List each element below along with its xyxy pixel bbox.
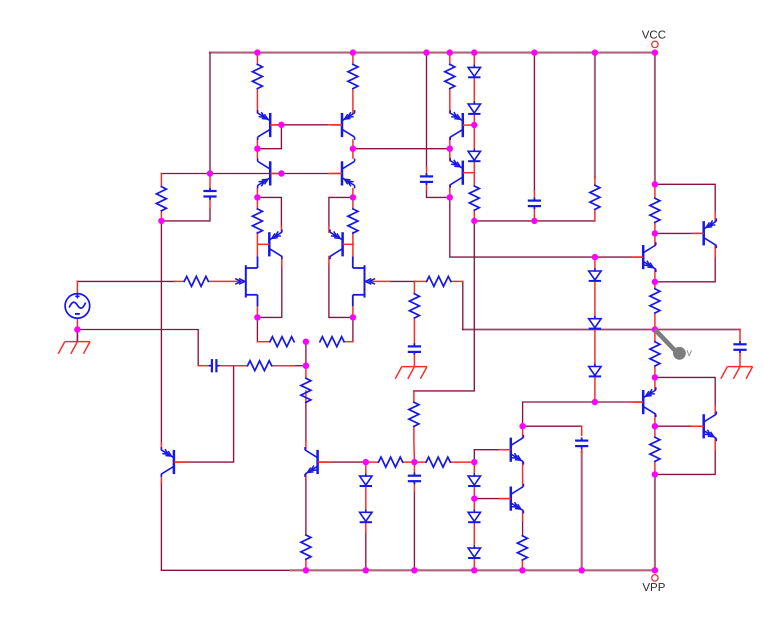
wire Q6 collector down [329,264,353,317]
diode D2 [468,101,480,114]
node railB3 [411,567,417,573]
diode D11 [468,545,480,558]
node VCC [652,49,658,55]
wire tail node down [305,342,307,366]
wire R8 bottom [654,222,656,233]
wire Q11 base wire [474,498,499,500]
transistor Q2 (pnp transistor) [330,110,354,140]
resistor R14 [301,378,311,402]
wire Q1 emitter lead [256,89,258,113]
wire R12 to C4 [413,318,415,346]
wire Q14E [654,377,656,389]
wire Q6 emitter link [329,197,353,226]
ground GND2 [395,355,427,379]
wire Q9 collector up [305,402,307,441]
resistor R8 [650,198,660,222]
wire R11 top [654,426,656,437]
voltage source V1 (sine) [65,294,90,319]
transistor Q6 (pnp transistor) [330,229,354,259]
wire Q17E [160,443,162,450]
transistor Q10 (npn transistor) [499,435,523,465]
resistor R7b [469,186,479,210]
transistor Q13 (pnp transistor) [692,218,716,248]
wire output node rail [463,329,740,331]
wire VCC top rail [210,52,655,54]
voltage probe [656,331,692,360]
wire D7 top [365,462,367,476]
diode D6 [589,364,601,377]
wire C3 drop [533,53,535,191]
wire C2 drop [426,53,428,167]
wire D5-D6 [594,329,596,366]
ground GND3 [721,355,753,379]
resistor R3 [445,64,455,88]
transistor Q16 (npn transistor) [632,242,656,272]
resistor R12 [409,294,419,318]
wire Q3 base stub [270,173,281,175]
capacitor C2 [420,173,433,185]
node tail [303,339,309,345]
wire D7-D8 [365,487,367,513]
wire output to VPP rail [654,474,656,570]
wire R2 top lead [352,53,354,65]
wire Q17 base wire [186,366,234,462]
wire R7 top [594,177,596,185]
wire Q2 collector lead [352,140,354,149]
wire C3 bottom [533,206,535,221]
wire mirror link [353,148,450,150]
wire RH5 right [272,365,294,367]
wire J1 source down [256,317,258,341]
wire R14 top [305,366,307,379]
wire J2 source lead [352,307,354,318]
wire 2nd stage out [450,197,632,257]
wire R10 bottom [654,366,656,377]
wire Q8 collector [449,185,451,197]
wire D4 top [594,257,596,271]
node railB6 [579,567,585,573]
wire Q7 emitter [449,89,451,113]
wire R13 bottom [413,426,416,462]
wire C2 corner [427,190,450,197]
wire Q17 collector to rail [160,483,162,570]
wire Q5 emitter link [257,197,281,226]
wire Q12E [714,212,716,221]
wire Q9 emitter [305,474,307,478]
wire R13 corner [462,281,464,329]
wire Q12 loop top [655,184,715,212]
wire Q12 loop bottom [655,257,715,282]
wire R10 top [654,330,656,342]
wire Q10C [522,426,524,437]
wire R4 bottom [160,211,162,221]
svg-text:VCC: VCC [642,30,666,42]
diode D9 [468,473,480,486]
wire C8 left lead [198,365,209,367]
diode D4 [589,268,601,281]
wire C6 top lead [581,426,583,435]
wire R9 top [654,282,656,289]
jfet J2 [353,257,375,307]
wire Q16 base stub wire [632,256,644,258]
svg-text:VPP: VPP [642,582,665,594]
wire source stub bottom [76,318,78,329]
wire Q8 emitter [449,149,451,161]
wire C5 top [739,330,741,345]
node Q1C [254,146,260,152]
capacitor C7 [408,473,421,485]
resistor R1 [252,64,262,88]
wire source bottom to gnd [76,330,78,341]
node D2D3 [471,122,477,128]
node J1S [254,314,260,320]
transistor Q11 (npn transistor) [499,484,523,514]
resistor RH2 [427,276,451,286]
wire D9-dot [473,487,475,499]
resistor R7 [590,185,600,209]
wire input node row [77,330,198,366]
wire D4-D5 [594,282,596,319]
node outB [652,230,658,236]
wire tail R leads2 [344,341,353,343]
wire C7 bottom [413,481,415,492]
wire J1 source lead [256,307,258,318]
wire Q13C [654,233,656,244]
wire Q6 emitter lead [328,226,330,232]
capacitor C6 [575,437,588,449]
wire Q15C [714,406,716,414]
ground GND1 [58,330,90,354]
wire Q13 base wire [655,232,692,234]
resistor R10 [650,342,660,366]
svg-text:v: v [687,347,693,359]
wire Q13E [654,269,656,282]
wire C1 bottom [209,196,211,209]
wire row462 b [403,461,426,463]
wire Q10 base stub [500,449,511,451]
node Q1Q2 base [278,122,284,128]
wire J2 gate lead [365,280,391,282]
node R7-D4 [592,254,598,260]
wire Q3 emitter lead [256,189,258,198]
node out [652,326,658,332]
wire D2-dot [473,115,475,126]
wire VCC drop to R18 [594,53,596,178]
wire Q16 bias wire stub [632,401,644,403]
resistor R5 [252,209,262,233]
wire C2 top [426,167,428,176]
resistor RH3 [270,337,294,347]
wire RH2 left [414,280,426,282]
wire Q17C [160,474,162,483]
wire R5 to J1 drain [256,232,258,256]
resistor RH6 [379,457,403,467]
node rail-R3 [447,49,453,55]
wire bias wire [523,402,632,426]
wire RH2 right [451,280,463,282]
wire base row Q1-Q2 [281,124,329,126]
node outD [652,374,658,380]
wire C6 top wire [523,425,582,427]
wire D1-D2 [473,78,475,104]
wire C1 top [209,174,211,191]
wire R1 top lead [256,53,258,65]
capacitor C1 [203,188,216,200]
wire R7 bottom [594,209,596,221]
wire Q4 base stub [329,173,342,175]
wire VPP bottom rail left [161,569,290,571]
wire base row Q3-Q4 [281,173,329,175]
diode D3 [468,149,480,162]
wire R6 leads [352,197,354,209]
wire D1 top [473,53,475,68]
transistor Q5 (pnp transistor) [258,229,282,259]
wire Q11 emitter down [522,521,524,535]
transistor Q16b (pnp transistor) [632,387,656,417]
wire C7 to rail [413,492,415,570]
node outE [652,423,658,429]
wire Q4 collector lead [352,149,354,158]
wire R7b bottom [473,210,475,221]
wire source stub top [76,281,78,293]
wire J1 gate lead [208,280,245,282]
node rowA [411,459,417,465]
wire R5 leads [256,197,258,209]
wire source top lead [77,280,175,282]
wire Q2 base stub [329,124,342,126]
wire dot-D3 [473,125,475,151]
wire Q17 base stub [174,461,186,463]
resistor RH1 [184,276,208,286]
transistor Q4 (pnp transistor) [330,159,354,189]
node Q3E [254,194,260,200]
node rail-R7 [592,49,598,55]
wire R7 wire [474,220,595,222]
node R4C1 [158,218,164,224]
node R7b-wire [471,218,477,224]
node input [207,170,213,176]
wire Q9 base wire [330,461,366,463]
wire R11 bottom [654,461,656,474]
resistor RH7 [426,457,450,467]
transistor Q7 (pnp transistor) [450,110,474,140]
wire Q15E [714,438,716,450]
resistor R16 [517,536,527,560]
node VPP [652,567,658,573]
wire Q11E [522,511,524,521]
node railB1 [303,567,309,573]
node outC [652,279,658,285]
node railB4 [471,567,477,573]
transistor Q3 (pnp transistor) [258,159,282,189]
wire C6 bottom lead [581,446,583,452]
node rail-C3 [531,49,537,55]
wire Q5 collector lead [281,257,283,267]
node src [74,326,80,332]
node rowC [471,459,477,465]
node fb [303,363,309,369]
wire tail R leads [257,341,270,343]
wire Q1 base-collector tie [257,125,281,149]
jfet J1 [235,257,257,307]
node railB5 [519,567,525,573]
resistor R2 [348,64,358,88]
resistor R9 [650,289,660,313]
resistor R4 [156,187,166,211]
wire Q14 base wire stub [692,425,704,427]
wire Q10 base wire [474,450,499,462]
capacitor C5 [733,341,746,353]
diode D5 [589,316,601,329]
node rail-D1 [471,49,477,55]
power pin VCC [642,30,666,48]
node rail-C2 [423,49,429,55]
wire D8 bottom [365,523,367,533]
wire C8-RH5 [219,365,247,367]
wire Q4 emitter lead [352,189,354,198]
wire gate wire right [390,280,414,282]
wire Q7 collector [449,137,451,148]
resistor RH4 [320,337,344,347]
wire Q5 emitter lead [280,226,282,232]
node bias [519,423,525,429]
wire R14 bottom [305,391,307,403]
node D6-wire [592,399,598,405]
diode D7 [360,473,372,486]
wire D3-R7b [473,162,475,186]
transistor Q8 (pnp transistor) [450,158,474,188]
node Q3Q4 base [278,170,284,176]
wire D11-rail [473,559,475,571]
capacitor C4 [408,343,421,355]
wire C5 bottom [739,350,741,355]
wire D6-dot [594,377,596,402]
wire C6 to VPP rail [581,452,583,570]
wire Q10E-Q11C [522,462,524,486]
node rail-R1 [254,49,260,55]
wire R12 top [413,281,415,293]
wire Q13 base [692,232,704,234]
wire R4 top [160,174,162,187]
resistor R15 [301,535,311,559]
wire R9 bottom [654,313,656,330]
diode D10 [468,510,480,523]
wire Q15 loop bottom [655,450,715,474]
transistor Q14 (npn transistor) [692,411,716,441]
wire feedback lead [294,365,306,367]
wire D10-D11 [473,523,475,548]
capacitor C3 [528,197,541,209]
resistor R6 [348,209,358,233]
node railB2 [363,567,369,573]
node Q7C [447,146,453,152]
wire R3 top lead [449,53,451,65]
power pin VPP [642,575,665,594]
node D9D10 [471,495,477,501]
wire Q9 emitter down [305,478,307,535]
wire Q12C [714,246,716,258]
wire D8 to rail [365,533,367,570]
wire R19 vert [414,221,474,391]
wire C1 bottom to R4 [161,209,210,221]
wire VPP bottom rail [290,569,655,571]
wire R13 top [413,391,415,402]
wire row462 c [450,461,474,463]
wire R16 bottom [521,560,523,570]
transistor Q1 (pnp transistor) [258,110,282,140]
wire row462 a [366,461,379,463]
wire C2 bottom [426,182,428,190]
wire Q2 emitter lead [352,89,354,113]
wire C7 top [413,462,415,476]
capacitor C8 [209,359,220,372]
wire R4 node to Q17 emitter [160,221,162,443]
wire Q9 base stub [318,461,330,463]
resistor R13 [409,402,419,426]
diode D1 [468,65,480,78]
wire Q3 collector lead [256,149,258,158]
wire Q15 loop top [655,377,715,406]
wire J2 source down [352,317,354,341]
node Q4E [350,194,356,200]
wire Q11 base stub [500,498,511,500]
node J2S [350,314,356,320]
wire rail corner down [209,53,211,174]
node outF [652,471,658,477]
wire Q1 collector lead [256,140,258,149]
wire input row [161,173,270,175]
wire Q14 base wire [655,425,692,427]
wire RH1 left lead [175,280,184,282]
node C3-wire [531,218,537,224]
wire Q14C [654,414,656,426]
diode D8 [360,510,372,523]
node Q8C [447,194,453,200]
node rail-R2 [350,49,356,55]
resistor RH5 [248,361,272,371]
wire R8 top [654,184,656,198]
wire D9 top [473,462,475,476]
wire Q1 base stub [270,124,281,126]
wire Q9 collector [305,441,307,450]
wire Q5 collector down [257,264,281,317]
wire C3 top [533,191,535,201]
resistor R11 [650,437,660,461]
wire Q6 collector lead [328,257,330,267]
transistor Q17 (pnp transistor) [161,447,185,477]
wire R15 bottom [305,559,307,570]
transistor Q9 (npn transistor) [305,447,329,477]
wire R6 to J2 drain [352,232,354,256]
wire VCC drop to output [654,53,656,185]
node rowB [363,459,369,465]
wire dot-D10 [473,499,475,513]
node outA [652,181,658,187]
node Q2C [350,146,356,152]
